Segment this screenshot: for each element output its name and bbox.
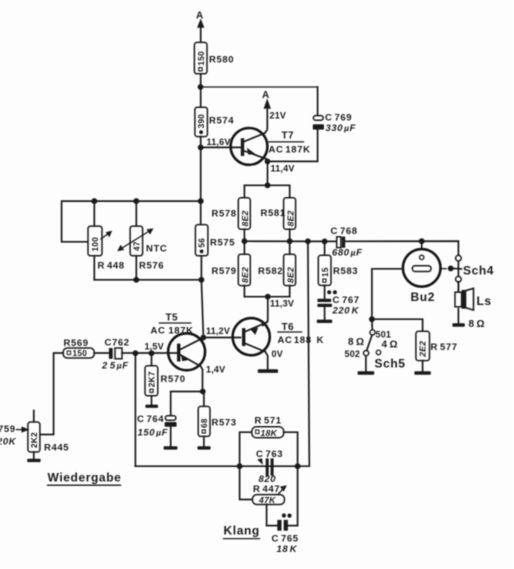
label T6 / AC188 K <box>278 322 325 346</box>
svg-text:11,2V: 11,2V <box>206 326 230 336</box>
svg-text:Klang: Klang <box>224 524 260 538</box>
junction mid rail at R578 column <box>242 238 248 244</box>
junction R576 bottom <box>133 277 139 283</box>
svg-text:25µF: 25µF <box>101 361 129 372</box>
wire bank top bracket <box>244 185 289 198</box>
junction mid rail at R583 <box>322 239 328 245</box>
wire Sch4 to speaker <box>457 282 459 292</box>
wire feedback from base node down <box>134 353 136 466</box>
junction NTC top rail / main line <box>198 198 204 204</box>
junction emitter feed to output resistor bank <box>265 182 271 188</box>
resistor R577 2E2 <box>416 331 458 371</box>
wire junction to R577 <box>372 319 423 331</box>
wire R575 to T5 collector junction <box>201 256 203 338</box>
label Klang <box>224 524 260 539</box>
junction mid rail feedback takeoff <box>305 238 311 244</box>
svg-text:18K: 18K <box>277 544 298 555</box>
resistor R579 8E2 <box>212 241 251 297</box>
svg-text:1,5V: 1,5V <box>145 342 164 352</box>
svg-text:Sch4: Sch4 <box>463 264 494 278</box>
junction T7 base node <box>198 144 204 150</box>
svg-text:R581: R581 <box>261 208 286 219</box>
svg-text:R447: R447 <box>253 484 280 495</box>
ground T6 collector <box>258 369 278 373</box>
svg-text:150: 150 <box>197 51 206 66</box>
svg-text:11,4V: 11,4V <box>271 164 295 174</box>
ground C764 <box>164 446 178 449</box>
wire base of T7 <box>201 146 241 148</box>
wire C769 bottom to T7 emitter node <box>268 160 318 162</box>
svg-text:0V: 0V <box>272 349 283 359</box>
svg-text:100: 100 <box>91 237 100 252</box>
resistor R571 18K <box>240 415 298 466</box>
svg-text:20K: 20K <box>0 437 17 448</box>
svg-text:330µF: 330µF <box>326 123 357 134</box>
svg-text:T5: T5 <box>166 313 179 324</box>
ground Sch5 <box>358 371 375 375</box>
switch Sch5 <box>345 319 406 371</box>
svg-text:NTC: NTC <box>146 244 167 255</box>
svg-text:21V: 21V <box>270 110 287 120</box>
label T5 / AC 187K <box>151 313 194 337</box>
svg-text:8E2: 8E2 <box>240 210 250 226</box>
wire mid rail right of C768 to Sch4 <box>345 241 458 255</box>
resistor R578 8E2 <box>212 198 251 229</box>
wire R574 down to base node and on to NTC rail and R575 <box>200 137 202 225</box>
transistor T5 AC187K <box>168 333 205 391</box>
potentiometer R445 2K2 Wiedergabe <box>17 411 70 459</box>
wire NTC bottom rail <box>94 279 201 281</box>
svg-text:R580: R580 <box>209 55 234 66</box>
svg-text:759: 759 <box>0 424 16 435</box>
junction base node / R570 <box>149 350 155 356</box>
svg-text:47: 47 <box>132 241 141 251</box>
svg-text:A: A <box>196 11 204 22</box>
junction T7 emitter node 11.4V <box>265 159 271 165</box>
node A supply arrow (main rail) <box>196 11 204 43</box>
wire R569 left bracket down to R445 <box>40 353 63 435</box>
resistor R570 2K7 <box>145 353 186 404</box>
wire feedback long vertical <box>308 241 309 466</box>
svg-text:R574: R574 <box>209 116 234 127</box>
svg-text:Ls: Ls <box>477 294 492 308</box>
svg-text:R575: R575 <box>210 237 235 248</box>
svg-text:A: A <box>262 90 270 101</box>
svg-text:502: 502 <box>345 349 361 359</box>
svg-text:8Ω: 8Ω <box>469 319 485 330</box>
resistor R583 15 <box>318 241 358 299</box>
svg-text:2K7: 2K7 <box>148 371 157 387</box>
svg-text:AC187K: AC187K <box>269 144 311 155</box>
svg-text:68: 68 <box>200 418 209 428</box>
loudspeaker Ls <box>455 288 492 323</box>
wire R569 to C762 <box>94 352 109 354</box>
svg-text:150µF: 150µF <box>138 427 169 438</box>
svg-text:R571: R571 <box>255 415 282 426</box>
svg-text:8Ω: 8Ω <box>348 337 364 348</box>
svg-text:R570: R570 <box>161 374 186 385</box>
wire supply rail to C769 <box>201 86 318 88</box>
junction T5 collector node <box>201 335 207 341</box>
svg-text:C765: C765 <box>272 533 299 544</box>
NTC thermistor R576 47 <box>117 201 167 280</box>
label Wiedergabe <box>48 471 122 486</box>
ground R577 <box>414 371 430 375</box>
svg-text:4Ω: 4Ω <box>382 340 398 351</box>
capacitor C768 680uF <box>331 226 363 258</box>
resistor R581 8E2 <box>261 198 296 229</box>
junction NTC bottom rail / main line <box>198 277 204 283</box>
svg-text:1,4V: 1,4V <box>206 365 225 375</box>
capacitor C767 220K <box>317 290 359 319</box>
svg-text:501: 501 <box>376 329 392 339</box>
connector Bu2 <box>403 241 441 304</box>
svg-text:T6: T6 <box>282 322 295 333</box>
resistor R569 150 <box>63 338 94 358</box>
wire C762 to base node <box>122 352 135 354</box>
wire 11.3V node to T6 emitter <box>263 297 268 326</box>
ground C767 <box>317 320 332 323</box>
wire R578 to mid rail <box>243 229 245 241</box>
capacitor C762 2.5uF <box>101 337 130 371</box>
transistor T6 AC188K <box>233 318 270 369</box>
resistor R580 150 <box>194 42 234 73</box>
junction T5 emitter node <box>200 389 206 395</box>
junction mid rail at R581 column <box>287 238 293 244</box>
svg-text:220K: 220K <box>332 305 360 316</box>
svg-text:R577: R577 <box>431 342 458 353</box>
resistor R573 68 <box>198 392 236 447</box>
svg-text:47K: 47K <box>258 495 276 505</box>
svg-text:R573: R573 <box>212 417 237 428</box>
svg-text:390: 390 <box>197 114 206 129</box>
junction R576 top <box>133 198 139 204</box>
junction Bu2 top <box>419 238 425 244</box>
ground R445 <box>27 459 40 462</box>
svg-text:AC187K: AC187K <box>151 326 194 337</box>
svg-text:11,6V: 11,6V <box>207 137 231 147</box>
switch Sch4 <box>448 255 494 292</box>
wire R580 to junction <box>200 74 202 107</box>
svg-text:R579: R579 <box>212 266 237 277</box>
wire feedback bottom rail <box>135 465 309 467</box>
svg-text:15: 15 <box>321 267 330 277</box>
junction Sch5 / R577 <box>369 316 375 322</box>
resistor R582 8E2 <box>258 241 296 297</box>
svg-text:Sch5: Sch5 <box>375 356 406 370</box>
wire emitter node to C764 branch <box>171 392 203 417</box>
wire R447 wiper to C765 <box>267 505 278 526</box>
wire T5 base <box>135 352 179 354</box>
junction Klang left <box>237 463 243 469</box>
ground Ls <box>452 323 464 327</box>
svg-text:680µF: 680µF <box>332 247 363 258</box>
junction 11.3V node <box>265 294 271 300</box>
svg-text:R576: R576 <box>139 261 164 272</box>
capacitor C765 18K <box>272 466 299 555</box>
wire bank bottom bracket <box>244 296 289 298</box>
junction supply rail / C769 feed <box>198 84 204 90</box>
svg-text:Bu2: Bu2 <box>411 290 435 304</box>
potentiometer R447 47K <box>240 466 287 505</box>
capacitor C763 820 <box>256 449 283 485</box>
ground R570 <box>145 405 158 408</box>
capacitor C769 330uF <box>313 87 356 161</box>
capacitor C764 150uF <box>137 414 177 446</box>
svg-text:18K: 18K <box>261 428 278 438</box>
ground R573 <box>197 446 210 449</box>
svg-text:Wiedergabe: Wiedergabe <box>48 471 122 485</box>
wire mid rail (left of C768) <box>244 240 336 242</box>
svg-text:AC188K: AC188K <box>278 335 325 346</box>
trimmer R448 100 <box>88 201 125 280</box>
label T7 / AC187K <box>269 131 311 156</box>
junction R448 top <box>91 198 97 204</box>
resistor R574 390 <box>195 107 234 136</box>
svg-text:11,3V: 11,3V <box>270 298 294 308</box>
svg-text:C768: C768 <box>331 226 358 237</box>
svg-text:2K2: 2K2 <box>30 432 39 448</box>
transistor T7 AC187K <box>231 110 268 186</box>
svg-text:R582: R582 <box>258 266 283 277</box>
svg-text:8E2: 8E2 <box>285 210 295 226</box>
junction Klang right <box>295 463 301 469</box>
svg-text:T7: T7 <box>282 131 295 142</box>
svg-text:8E2: 8E2 <box>285 267 295 283</box>
wire Bu2 left to Sch5 junction <box>372 269 403 319</box>
svg-text:8E2: 8E2 <box>240 267 250 283</box>
svg-text:R583: R583 <box>333 266 358 277</box>
svg-text:150: 150 <box>73 349 88 358</box>
svg-text:2E2: 2E2 <box>417 341 427 358</box>
svg-text:C763: C763 <box>256 449 283 460</box>
wire NTC top rail <box>62 201 201 242</box>
svg-text:C769: C769 <box>325 112 352 123</box>
svg-text:C764: C764 <box>137 414 164 425</box>
svg-text:C762: C762 <box>105 337 130 348</box>
wire R581 to mid rail <box>289 229 291 241</box>
wire T5 collector to T6 base <box>203 337 240 339</box>
svg-text:R578: R578 <box>212 209 237 220</box>
svg-text:56: 56 <box>197 238 206 248</box>
svg-text:R445: R445 <box>44 442 69 453</box>
node A supply arrow (T7 collector) <box>262 90 271 109</box>
junction base node / feedback <box>133 350 139 356</box>
wire Bu2 right dash <box>441 268 447 270</box>
resistor R575 56 <box>195 225 235 256</box>
svg-text:R448: R448 <box>98 261 125 272</box>
